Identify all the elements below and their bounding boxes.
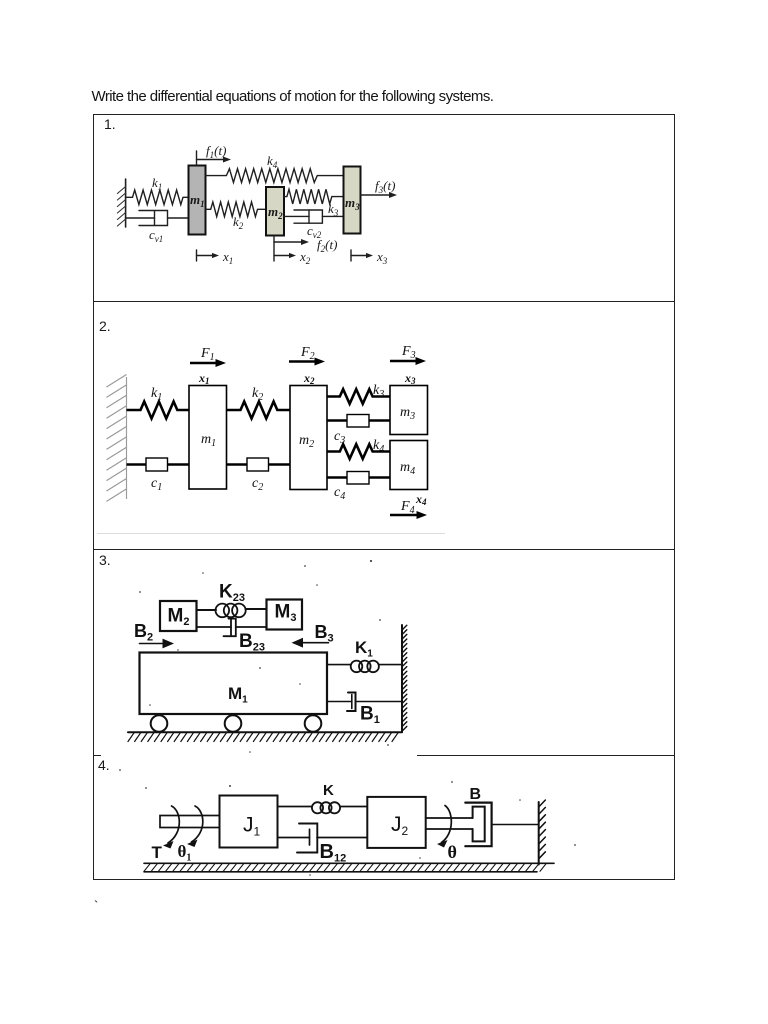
- ground 4: [144, 863, 554, 872]
- torque arc theta1: [187, 806, 203, 847]
- label 3.: [99, 552, 111, 568]
- spring k4: [327, 444, 390, 459]
- force F1 arrow: [190, 359, 226, 367]
- spring k1: [126, 190, 189, 205]
- mass M2 box: [160, 601, 197, 631]
- spring k3: [284, 189, 344, 204]
- table row line 3/4 right part: [417, 755, 675, 756]
- friction arrow B3: [292, 638, 329, 648]
- spring k2: [206, 202, 267, 217]
- damper cv1: [126, 211, 189, 226]
- x2 marker: [274, 253, 296, 258]
- mass m3: [344, 167, 361, 234]
- stray backtick bottom left: [94, 898, 98, 913]
- spring K (d4): [278, 802, 368, 813]
- table outer border: [93, 114, 675, 880]
- label 1.: [104, 116, 116, 132]
- mass m1: [189, 386, 227, 490]
- f1(t) arrow: [197, 151, 232, 165]
- damper c1: [127, 458, 190, 471]
- inertia J2 box: [367, 797, 425, 848]
- table row line 2/3: [93, 549, 675, 550]
- damper B23: [197, 619, 267, 637]
- torque arc T: [163, 806, 179, 849]
- spring k1: [127, 402, 190, 419]
- faint scan edge of diagram 2 image: [97, 533, 445, 534]
- spring k3: [327, 389, 390, 404]
- damper c2: [227, 458, 291, 471]
- ground 3: [128, 732, 402, 741]
- mass m3: [390, 386, 428, 435]
- wheel 2: [225, 715, 242, 732]
- mass m1: [189, 166, 206, 235]
- mass m4: [390, 441, 428, 490]
- force F4 arrow: [390, 511, 427, 519]
- wall 3 (right): [402, 625, 407, 732]
- damper B12: [278, 824, 368, 853]
- wheel 1: [151, 715, 168, 732]
- spring k4: [206, 169, 344, 183]
- wall 1 (left): [117, 179, 125, 227]
- friction arrow B2: [140, 639, 175, 649]
- title: [92, 88, 494, 105]
- x1 marker: [197, 250, 220, 261]
- damper B1: [327, 693, 402, 712]
- f2(t) arrow: [274, 236, 309, 262]
- input shaft: [160, 816, 220, 828]
- x3 marker: [351, 250, 373, 261]
- inertia J1 box: [220, 796, 278, 848]
- rotation arc theta: [437, 806, 451, 848]
- table row line 1/2: [93, 301, 675, 302]
- force F2 arrow: [289, 358, 325, 366]
- bearing B plunger: [473, 807, 485, 842]
- wall 4 (right): [539, 800, 546, 865]
- wall 2 (left): [107, 375, 127, 502]
- line bearing to wall: [492, 824, 539, 826]
- mass M3 box: [267, 600, 303, 630]
- damper cv2: [284, 210, 344, 223]
- spring K23: [197, 604, 267, 618]
- spring k2: [227, 402, 291, 419]
- output shaft J2 to bearing: [426, 818, 473, 829]
- table row line 3/4 left stub: [94, 755, 101, 756]
- wheel 3: [305, 715, 322, 732]
- bearing B housing: [465, 803, 491, 847]
- label 4.: [98, 757, 110, 773]
- f3(t) arrow: [361, 192, 398, 198]
- damper c3: [327, 415, 390, 428]
- mass m2: [266, 187, 284, 236]
- label 2.: [99, 318, 111, 334]
- damper c4: [327, 472, 390, 485]
- cart M1 box: [140, 653, 328, 715]
- mass m2: [290, 386, 327, 490]
- force F3 arrow: [390, 357, 426, 365]
- spring K1: [327, 661, 402, 673]
